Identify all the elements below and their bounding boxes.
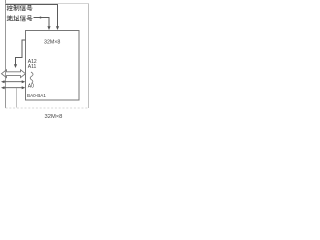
svg-text:A0: A0 — [28, 84, 34, 90]
svg-text:32M×8: 32M×8 — [45, 114, 63, 120]
svg-text:BA0-BA1: BA0-BA1 — [27, 93, 46, 98]
svg-text:32M×8: 32M×8 — [44, 39, 60, 45]
svg-text:A11: A11 — [28, 64, 37, 70]
